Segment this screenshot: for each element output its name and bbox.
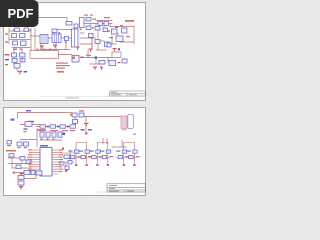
capacitor C24: [18, 176, 24, 180]
ground: [76, 47, 80, 50]
winding W2: [80, 18, 85, 31]
transistor Q1: [70, 113, 77, 117]
ground: [18, 71, 23, 74]
capacitor C9: [109, 48, 121, 65]
frame bottom page2: [95, 191, 146, 193]
label ref: [6, 150, 16, 152]
resistor R10: [25, 122, 32, 127]
wire supply rail: [18, 113, 73, 119]
capacitor C2: [13, 41, 26, 50]
inductor L2: [52, 32, 61, 43]
capacitor C12: [89, 34, 94, 38]
wire relay row: [20, 129, 62, 148]
wire led chain: [20, 117, 75, 127]
testpoint TP1: [81, 127, 93, 135]
transistor Q8: [100, 142, 114, 166]
capacitor C8: [122, 28, 128, 33]
inductor L1: [40, 35, 48, 44]
speaker LS1: [121, 115, 133, 131]
transistor Q9: [116, 142, 130, 166]
svg-text:PDF: PDF: [8, 6, 34, 21]
capacitor C11: [65, 37, 69, 43]
transistor Q7: [89, 142, 103, 166]
diode D7: [52, 29, 57, 33]
diode D2: [66, 22, 72, 26]
ground: [89, 49, 93, 52]
relay K4: [58, 132, 62, 137]
regulator U3: [107, 25, 123, 47]
capacitor C6: [95, 40, 100, 44]
port P1: [11, 119, 15, 121]
resistor R14: [31, 171, 35, 175]
diode D9: [104, 22, 109, 26]
driver array cells page 2: [68, 142, 140, 166]
capacitor C4: [74, 24, 78, 28]
footer text page1: [66, 97, 79, 98]
node C: [13, 172, 15, 174]
diode D3: [86, 18, 91, 22]
diode D4: [86, 26, 91, 30]
page 2 sheet: [4, 108, 146, 196]
transformer T1: [72, 29, 79, 47]
capacitor C1: [13, 41, 18, 45]
label net2: [24, 128, 28, 132]
node D: [47, 126, 69, 128]
capacitor C7: [105, 42, 110, 47]
wire speaker feed: [84, 115, 121, 123]
wire rectifier drops: [44, 50, 72, 55]
ground: [84, 123, 89, 126]
capacitor C3: [14, 64, 27, 73]
optocoupler U4: [72, 56, 84, 63]
resistor R3: [5, 59, 17, 63]
label VCC: [125, 20, 134, 22]
resistor R11: [73, 120, 78, 124]
wire to transformer: [30, 35, 40, 37]
bridge D1: [5, 34, 25, 43]
transistor Q6: [79, 142, 93, 166]
relay K2: [46, 132, 50, 140]
node B: [63, 133, 66, 136]
resistor R15: [24, 142, 29, 148]
led D11: [50, 125, 56, 128]
capacitor CX1: [24, 28, 31, 32]
node T: [37, 49, 52, 51]
wire primary links: [40, 30, 72, 50]
crystal Y1: [58, 148, 78, 172]
fuse F1: [13, 28, 20, 32]
node J1: [95, 56, 97, 58]
relay K1: [40, 132, 44, 140]
ground: [40, 46, 44, 49]
wire secondary bus: [80, 33, 96, 48]
capacitor C23: [16, 165, 21, 169]
ground: [19, 186, 24, 190]
wire analog mesh: [8, 156, 30, 173]
ground: [93, 67, 97, 70]
diode D5: [112, 52, 121, 58]
resistor R12: [17, 142, 22, 148]
wire bottom bus: [14, 173, 48, 187]
wire feedback net: [80, 50, 112, 64]
resistor R1: [12, 53, 17, 57]
wire mid links: [96, 41, 106, 50]
capacitor C5: [92, 27, 100, 31]
led D13: [70, 125, 76, 128]
label IN: [26, 110, 31, 112]
label top: [84, 15, 93, 16]
title block page2: [107, 184, 146, 192]
label hv: [93, 17, 111, 20]
frame bottom page1: [40, 95, 146, 97]
capacitor C25: [18, 181, 24, 185]
resistor R13: [24, 171, 30, 175]
varistor RV1: [12, 34, 17, 38]
diode D8: [98, 22, 103, 26]
capacitor C22: [26, 160, 31, 164]
wire top net: [14, 18, 67, 23]
wire array feed: [103, 139, 126, 148]
node A: [72, 57, 76, 60]
ic U10 microcontroller: [28, 145, 63, 176]
led D10: [40, 125, 46, 128]
title block page1: [110, 91, 146, 96]
wire pair connectors: [76, 142, 134, 144]
label marks: [86, 36, 130, 56]
relay K3: [52, 132, 56, 140]
port P2: [7, 141, 12, 147]
wire hv rail: [84, 21, 134, 45]
ic U2: [107, 29, 117, 34]
chassis box: [30, 51, 59, 59]
ground: [100, 67, 103, 70]
label A0: [28, 121, 34, 123]
resistor R2: [5, 53, 26, 57]
resistor R20: [79, 110, 84, 117]
ground: [53, 45, 57, 48]
capacitor C20: [9, 154, 14, 158]
wire cluster links: [92, 36, 116, 48]
page 1 sheet: [4, 3, 146, 101]
label row: [38, 130, 75, 131]
wire column links: [14, 50, 22, 64]
resistor R4: [5, 59, 25, 66]
capacitor C21: [20, 157, 25, 161]
transistor Q2: [36, 171, 42, 175]
led D12: [60, 125, 66, 128]
ground: [20, 173, 24, 176]
diode D6: [103, 28, 108, 32]
label spk: [133, 134, 136, 135]
label net: [57, 71, 64, 73]
wire AC input bus: [9, 28, 35, 50]
shunt U5: [99, 61, 105, 65]
transistor Q10: [126, 142, 140, 166]
PDF badge: [0, 0, 39, 27]
ground: [113, 48, 117, 51]
note text: [56, 63, 70, 69]
capacitor C10: [122, 59, 127, 63]
transistor Q5: [68, 142, 82, 166]
